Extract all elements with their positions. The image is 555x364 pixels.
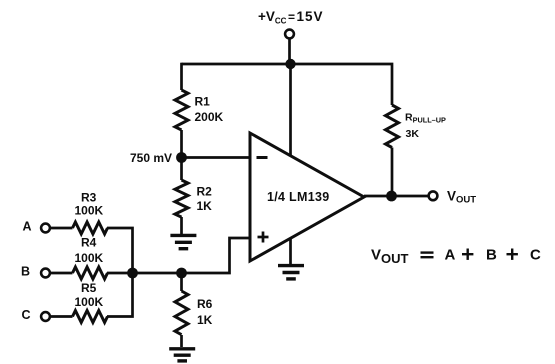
- svg-text:100K: 100K: [75, 204, 104, 218]
- wire R5 to junction: [107, 273, 133, 317]
- power terminal +Vcc: [285, 30, 294, 39]
- wire inverting input: [182, 156, 251, 159]
- svg-text:B: B: [486, 247, 497, 264]
- wire op-amp V- to ground: [289, 238, 292, 264]
- node output junction: [386, 191, 397, 202]
- svg-text:A: A: [445, 247, 456, 264]
- svg-text:100K: 100K: [75, 251, 104, 265]
- svg-text:R3: R3: [81, 191, 97, 205]
- svg-text:1K: 1K: [197, 313, 213, 327]
- node input junction 1: [127, 268, 138, 279]
- op-amp minus pin mark: [257, 156, 268, 159]
- node 750 mV: [176, 152, 187, 163]
- svg-text:750 mV: 750 mV: [130, 151, 172, 165]
- op-amp plus pin mark: [258, 236, 269, 239]
- wire junction1 to junction2: [107, 272, 182, 275]
- svg-text:RPULL–UP: RPULL–UP: [405, 112, 446, 125]
- svg-text:R4: R4: [81, 236, 97, 250]
- svg-text:C: C: [530, 247, 541, 264]
- svg-text:R2: R2: [197, 185, 213, 199]
- wire op-amp V+ stem: [289, 64, 292, 156]
- svg-text:R1: R1: [195, 95, 211, 109]
- resistor R5 100K: [73, 311, 108, 323]
- svg-text:=: =: [288, 10, 295, 24]
- wire R3 to junction: [107, 228, 133, 273]
- svg-text:C: C: [22, 308, 31, 322]
- ground under R6: [169, 349, 195, 361]
- terminal C: [41, 312, 50, 321]
- resistor R1 200K: [180, 63, 183, 90]
- node input junction 2: [176, 268, 187, 279]
- wire A lead: [50, 227, 73, 230]
- resistor R4 100K: [73, 267, 108, 279]
- resistor R3 100K: [73, 222, 108, 234]
- svg-text:VOUT: VOUT: [371, 247, 409, 267]
- svg-text:1K: 1K: [197, 199, 213, 213]
- svg-text:1/4 LM139: 1/4 LM139: [267, 190, 329, 204]
- svg-text:VOUT: VOUT: [447, 189, 476, 206]
- svg-text:A: A: [23, 220, 32, 234]
- terminal Vout: [429, 191, 438, 200]
- resistor R6 1K: [180, 273, 183, 291]
- wire C lead: [50, 315, 73, 318]
- svg-text:100K: 100K: [75, 295, 104, 309]
- wire vcc stem: [288, 39, 291, 65]
- wire output: [364, 195, 429, 198]
- svg-text:15V: 15V: [297, 9, 324, 24]
- svg-text:R5: R5: [81, 281, 97, 295]
- svg-text:B: B: [21, 265, 30, 279]
- ground under R2: [170, 235, 196, 248]
- wire non-inverting input: [182, 238, 251, 273]
- wire B lead: [50, 272, 73, 275]
- wire top rail: [182, 64, 393, 105]
- svg-text:3K: 3K: [406, 128, 420, 140]
- svg-text:200K: 200K: [195, 110, 224, 124]
- terminal A: [41, 224, 50, 233]
- ground under op-amp: [278, 266, 304, 279]
- terminal B: [41, 269, 50, 278]
- resistor R2 1K: [180, 158, 183, 181]
- svg-text:+VCC: +VCC: [258, 9, 287, 26]
- op-amp U1 1/4 LM139: [250, 133, 364, 261]
- node top-rail junction: [285, 59, 295, 69]
- svg-text:R6: R6: [197, 297, 213, 311]
- resistor R_PULL-UP 3K: [386, 105, 399, 148]
